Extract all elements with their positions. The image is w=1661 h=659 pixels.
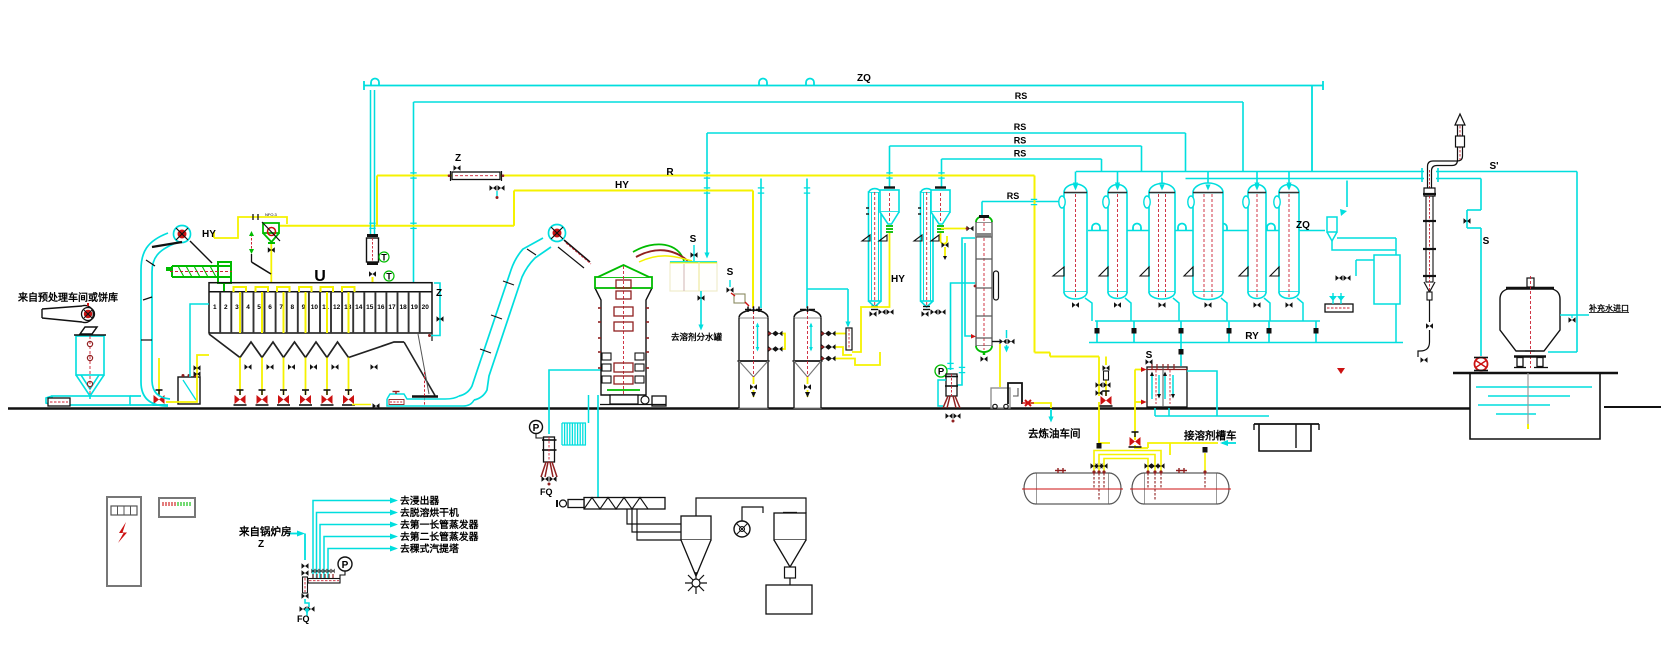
svg-text:HY: HY [615, 180, 629, 191]
svg-text:去第二长管蒸发器: 去第二长管蒸发器 [400, 530, 479, 543]
svg-text:P: P [342, 560, 349, 571]
svg-text:18: 18 [399, 304, 407, 311]
svg-text:R: R [666, 167, 674, 178]
svg-text:P: P [533, 423, 540, 434]
svg-text:HY: HY [202, 229, 216, 240]
svg-text:12: 12 [333, 304, 341, 311]
svg-text:HY: HY [891, 274, 905, 285]
svg-text:Z: Z [455, 153, 461, 164]
svg-text:RY: RY [1245, 331, 1259, 342]
svg-text:去炼油车间: 去炼油车间 [1028, 427, 1081, 440]
svg-text:1: 1 [213, 304, 217, 311]
svg-text:RS: RS [1014, 122, 1027, 132]
svg-text:S: S [690, 234, 697, 245]
svg-text:RS: RS [1007, 191, 1020, 201]
svg-text:P: P [938, 367, 945, 378]
svg-text:FQ: FQ [540, 487, 553, 497]
svg-text:S: S [727, 267, 734, 278]
svg-text:FQ: FQ [297, 614, 310, 624]
svg-text:6: 6 [268, 304, 272, 311]
svg-text:19: 19 [411, 304, 419, 311]
svg-text:S: S [1146, 350, 1153, 361]
svg-text:ZQ: ZQ [857, 73, 871, 84]
svg-text:4: 4 [246, 304, 250, 311]
svg-text:T: T [381, 253, 387, 263]
svg-text:RS: RS [1014, 136, 1027, 146]
svg-text:RS: RS [1015, 91, 1028, 101]
svg-text:8: 8 [290, 304, 294, 311]
svg-text:10: 10 [311, 304, 319, 311]
svg-text:接溶剂槽车: 接溶剂槽车 [1184, 429, 1237, 442]
svg-text:补充水进口: 补充水进口 [1588, 303, 1629, 313]
svg-text:16: 16 [377, 304, 385, 311]
svg-text:来自预处理车间或饼库: 来自预处理车间或饼库 [17, 291, 118, 304]
svg-text:14: 14 [355, 304, 363, 311]
svg-text:T: T [386, 272, 392, 282]
svg-text:去脱溶烘干机: 去脱溶烘干机 [400, 506, 459, 519]
svg-text:2: 2 [224, 304, 228, 311]
svg-text:15: 15 [366, 304, 374, 311]
svg-text:3: 3 [235, 304, 239, 311]
svg-text:S: S [1483, 236, 1490, 247]
svg-text:S': S' [1489, 161, 1498, 172]
svg-text:5: 5 [257, 304, 261, 311]
svg-text:RS: RS [1014, 149, 1027, 159]
svg-text:ZQ: ZQ [1296, 220, 1310, 231]
svg-text:Z: Z [436, 288, 442, 299]
svg-text:来自锅炉房: 来自锅炉房 [238, 525, 292, 538]
svg-text:NFO.3: NFO.3 [265, 212, 278, 217]
svg-text:20: 20 [422, 304, 430, 311]
svg-text:17: 17 [388, 304, 396, 311]
svg-text:11: 11 [322, 304, 329, 311]
svg-text:去溶剂分水罐: 去溶剂分水罐 [671, 332, 723, 342]
svg-text:去浸出器: 去浸出器 [400, 494, 439, 507]
svg-text:Z: Z [258, 539, 264, 550]
svg-text:去第一长管蒸发器: 去第一长管蒸发器 [400, 518, 479, 531]
svg-text:去稞式汽提塔: 去稞式汽提塔 [400, 542, 459, 555]
